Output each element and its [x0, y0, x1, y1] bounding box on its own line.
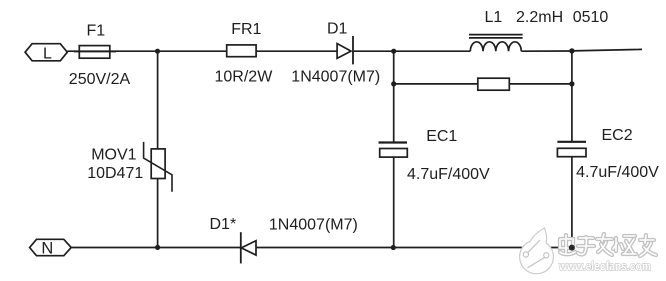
varistor MOV1	[144, 142, 172, 192]
capacitor EC1	[379, 143, 408, 158]
node junction top-right	[569, 48, 574, 53]
node junction top-left	[155, 49, 160, 54]
svg-text:10D471: 10D471	[87, 165, 143, 182]
wire bypass resistor line	[394, 83, 572, 85]
diode D1	[337, 36, 353, 64]
diode D1*	[241, 232, 256, 263]
svg-text:10R/2W: 10R/2W	[215, 69, 274, 86]
svg-text:4.7uF/400V: 4.7uF/400V	[576, 164, 659, 181]
resistor bypass (parallel with L1)	[478, 78, 510, 90]
node junction bypass-left	[391, 81, 396, 86]
svg-text:4.7uF/400V: 4.7uF/400V	[407, 166, 490, 183]
svg-text:MOV1: MOV1	[91, 147, 136, 164]
svg-text:D1: D1	[327, 21, 348, 38]
svg-text:FR1: FR1	[231, 21, 261, 38]
svg-text:250V/2A: 250V/2A	[69, 71, 131, 88]
svg-text:2.2mH: 2.2mH	[516, 9, 563, 26]
connector L	[25, 44, 67, 63]
svg-text:1N4007(M7): 1N4007(M7)	[291, 69, 380, 86]
node junction bypass-right	[569, 81, 574, 86]
wire bottom N line	[71, 247, 572, 249]
node junction bottom-left	[155, 245, 160, 250]
resistor FR1	[227, 45, 256, 57]
wire MOV1 branch vertical	[157, 51, 159, 247]
svg-text:www.elecfans.com: www.elecfans.com	[558, 259, 651, 274]
svg-text:L1: L1	[485, 9, 503, 26]
watermark logo circle	[520, 228, 554, 274]
svg-text:EC1: EC1	[426, 128, 457, 145]
wire EC2 branch vertical	[571, 51, 573, 248]
node junction bottom-right	[569, 245, 575, 251]
node junction bottom-mid	[391, 245, 396, 250]
inductor L1	[469, 35, 523, 52]
watermark chinese characters	[560, 234, 656, 256]
node junction top-mid	[391, 49, 396, 54]
svg-text:L: L	[43, 45, 52, 62]
capacitor EC2	[557, 142, 586, 157]
svg-text:EC2: EC2	[602, 127, 633, 144]
svg-text:N: N	[41, 239, 53, 257]
svg-text:F1: F1	[87, 23, 106, 40]
svg-text:D1*: D1*	[210, 216, 237, 233]
svg-text:1N4007(M7): 1N4007(M7)	[269, 217, 358, 234]
svg-text:0510: 0510	[573, 9, 609, 26]
fuse F1	[74, 46, 116, 59]
wire EC1 branch vertical	[393, 51, 395, 247]
connector N	[30, 239, 72, 257]
wire top main L line	[67, 49, 642, 51]
